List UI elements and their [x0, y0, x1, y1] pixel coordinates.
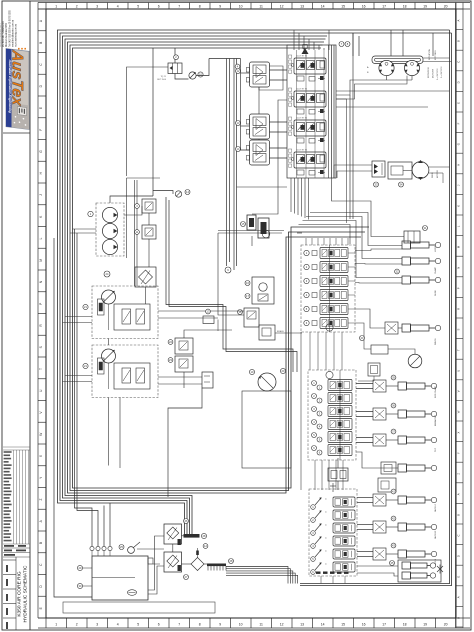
wire: centre riser elbows into bank B2 top — [297, 232, 302, 234]
svg-text:8: 8 — [199, 4, 201, 8]
solenoid valve SV1 — [142, 199, 156, 213]
svg-text:4: 4 — [117, 4, 119, 8]
approval rows — [3, 548, 30, 557]
balloon at CYL3 — [395, 269, 400, 274]
svg-text:8: 8 — [199, 623, 201, 627]
svg-text:20: 20 — [444, 4, 448, 8]
valve pair VD5 — [378, 478, 396, 492]
wire: motor band to right riser — [423, 57, 450, 59]
svg-text:17: 17 — [382, 623, 386, 627]
flow meter FM1 — [175, 74, 189, 80]
svg-text:E: E — [39, 607, 43, 609]
svg-text:12: 12 — [280, 623, 284, 627]
svg-text:TQ 21: TQ 21 — [160, 76, 166, 78]
bank B1 section S2 — [294, 91, 326, 107]
pump PA rotary group — [102, 290, 116, 304]
svg-text:2: 2 — [76, 623, 78, 627]
wire: bank B3 to bank B4 connectors — [314, 460, 316, 490]
valve block VD2 — [373, 408, 386, 420]
wire: bank B4 to CYL10 port A — [357, 524, 373, 526]
svg-text:K: K — [456, 205, 460, 207]
balloon 15 at GA1 — [241, 222, 246, 227]
wire: bank B2 top feeders — [305, 238, 307, 245]
wire: bank B4 to CYL11 port B — [357, 556, 373, 558]
wire: second pilot drop pair — [233, 59, 235, 271]
title strip address text (rotated) — [0, 9, 26, 49]
svg-text:6: 6 — [158, 623, 160, 627]
wire: bank B4 to CYL9 port B — [357, 502, 373, 504]
balloon at PB — [83, 363, 88, 368]
svg-text:10: 10 — [239, 623, 243, 627]
wire: PR1 bypass loop — [259, 66, 283, 90]
svg-text:CLUT RT IN: CLUT RT IN — [296, 118, 307, 120]
svg-text:X: X — [456, 431, 460, 433]
svg-text:AusTex: AusTex — [9, 48, 26, 108]
svg-text:18: 18 — [403, 623, 407, 627]
bank B3 centre gallery — [339, 370, 341, 460]
check valve block CV4 — [175, 356, 193, 372]
bank B4 valve module 3 — [311, 523, 355, 535]
svg-text:9: 9 — [219, 623, 221, 627]
balloon at CV3 — [168, 340, 173, 345]
valve block VE2 — [373, 521, 386, 533]
balloon at F2 — [184, 575, 189, 580]
cylinder CYL2 — [402, 257, 411, 265]
bank B3 valve module 3 — [312, 406, 353, 417]
feed motor FM3 — [412, 162, 429, 179]
wire: footer links — [337, 458, 339, 468]
svg-text:10: 10 — [239, 4, 243, 8]
svg-text:5: 5 — [137, 623, 139, 627]
balloon at CYL6 — [391, 403, 396, 408]
svg-text:7: 7 — [178, 623, 180, 627]
wire: flow meter to pilot run — [196, 59, 209, 76]
bank B4 valve module 1 — [311, 497, 355, 509]
svg-text:CLUT RT IN: CLUT RT IN — [296, 150, 307, 152]
svg-text:U: U — [456, 370, 460, 372]
svg-text:W: W — [39, 433, 43, 436]
wire: module PR2 to valve bank B1 — [270, 121, 288, 123]
balloon at FC1 — [399, 182, 404, 187]
wire: pilot run down to PR modules — [241, 59, 250, 151]
cylinder CYL8 — [398, 464, 407, 472]
svg-text:N: N — [456, 267, 460, 269]
pump PB control block — [114, 363, 150, 389]
rotation motor M2 — [404, 60, 419, 75]
balloon at breather — [119, 545, 124, 550]
pressure reducing module PR1 — [250, 62, 270, 87]
svg-text:ROD CLAMP: ROD CLAMP — [434, 385, 437, 398]
wire: GA1 riser — [251, 236, 253, 246]
return filter F1 — [164, 524, 182, 544]
wire: bank B3 to CYL5 port B — [356, 388, 373, 390]
svg-text:3: 3 — [96, 623, 98, 627]
bank B2 valve module 4 — [304, 290, 355, 301]
svg-text:B: B — [39, 42, 43, 44]
cylinder CYL6 — [398, 410, 407, 418]
valve pair VD4 — [381, 462, 396, 474]
svg-text:email:info@austex.com.au: email:info@austex.com.au — [12, 19, 15, 47]
bottom notes box — [63, 602, 215, 613]
svg-text:9: 9 — [219, 4, 221, 8]
wire: filter F2 west elbow down — [148, 566, 164, 594]
wire: bank B1 to centre gauge assembly — [252, 100, 287, 214]
balloon 1 at pump P1 — [88, 211, 93, 216]
svg-text:P: P — [39, 303, 43, 305]
wire: bank B4 to CYL9 port A — [357, 497, 373, 499]
valve bank B2 enclosure — [301, 245, 355, 332]
svg-text:C: C — [456, 534, 460, 536]
svg-text:A: A — [456, 596, 460, 598]
cylinder CYL12 — [402, 562, 411, 569]
valve block VE3 — [373, 548, 386, 560]
return filter F2 — [164, 552, 182, 572]
feed motor valve FV1 — [372, 161, 385, 177]
cylinder CYL9 — [398, 496, 407, 504]
svg-text:CLUT RT IN: CLUT RT IN — [296, 56, 307, 58]
wire: charge line pair to pump group A — [134, 180, 136, 286]
svg-text:14: 14 — [321, 623, 325, 627]
wire: header bar to filter F1 — [182, 535, 184, 537]
wire: bank B2 left supply drop — [300, 332, 302, 490]
valve bank B3 enclosure — [308, 370, 356, 460]
svg-text:16: 16 — [362, 623, 366, 627]
svg-text:HYDRAULIC SCHEMATIC: HYDRAULIC SCHEMATIC — [23, 565, 29, 622]
wire: pilot modules vertical tie — [258, 87, 260, 114]
bank B4 inlet tee — [332, 483, 334, 492]
top ruler — [38, 3, 470, 10]
bank B3 valve module 1 — [312, 380, 353, 391]
bank B1 internal gallery verticals — [296, 50, 298, 178]
svg-text:11: 11 — [259, 623, 263, 627]
wire: long vertical pair at x350/353 to bank B2 wrap — [352, 33, 354, 219]
valve block VE1 — [373, 494, 386, 506]
valve bank B1 right gallery lines — [328, 45, 330, 178]
breather B1 — [128, 547, 135, 554]
bank B2 valve module 6 — [304, 318, 355, 329]
filter F0 — [135, 267, 156, 287]
wire: bank B3 to CYL8 — [356, 452, 398, 468]
gauge isolator assembly GA1 — [247, 215, 256, 230]
cylinder CYL4 — [402, 324, 411, 332]
wire: motor band right feeder — [432, 33, 434, 56]
svg-text:JACK RF: JACK RF — [434, 530, 437, 539]
wire: bank B3 to CYL7 port B — [356, 442, 373, 444]
wire: bank B2 bottom links to bank B3 — [309, 332, 311, 370]
balloon at CV4 — [168, 358, 173, 363]
auxiliary enclosure around SV valves — [127, 177, 161, 179]
svg-text:Y: Y — [456, 452, 460, 454]
cylinder CYL11 — [398, 550, 407, 558]
svg-text:20: 20 — [444, 623, 448, 627]
brake valve BV1 — [259, 325, 275, 340]
balloon at A1 — [423, 226, 428, 231]
AusTex logo — [6, 48, 29, 130]
wire: drain line to tank left — [54, 238, 92, 597]
solenoid pair SV7 — [368, 363, 380, 376]
wire: module PR3 to valve bank B1 — [270, 147, 288, 149]
balloon 11 at SV2 — [135, 230, 140, 235]
right-edge return riser double line — [449, 30, 451, 584]
wire: bus drops to motor band — [390, 30, 392, 56]
svg-text:PO Box 447, Underwood: PO Box 447, Underwood — [2, 21, 5, 47]
svg-text:12: 12 — [280, 4, 284, 8]
svg-text:2 x OMT 250: 2 x OMT 250 — [437, 68, 439, 80]
svg-text:M: M — [39, 259, 43, 262]
svg-text:13: 13 — [300, 4, 304, 8]
bottom-right twin cylinder box — [398, 560, 441, 582]
feed motor cylinder FC1 — [388, 162, 412, 179]
rotation motor M1 — [379, 60, 394, 75]
wire: bank B4 to CYL10 port B — [357, 529, 373, 531]
bank B2 valve module 2 — [304, 262, 355, 273]
svg-text:13: 13 — [300, 623, 304, 627]
svg-text:B: B — [456, 40, 460, 42]
svg-text:E: E — [39, 107, 43, 109]
wire: VB5 drop — [218, 233, 244, 315]
balloon at strainer ST1 — [185, 190, 190, 195]
tank heater element — [128, 590, 137, 596]
cylinder CYL5 — [398, 382, 407, 390]
wire: bank B1 gallery down to feed motor — [340, 164, 372, 166]
svg-text:2 x OMT 250: 2 x OMT 250 — [441, 66, 443, 78]
wire: bank B3 to CYL7 port A — [356, 437, 373, 439]
wire: bus line extension feeding right riser — [330, 29, 450, 31]
main pressure/return bus bundle (top + left + bottom-left) — [58, 30, 331, 534]
wire: tank feed drop lines from pump case drains — [75, 229, 93, 546]
balloon at CYL10 — [391, 516, 396, 521]
balloon at twin cylinders — [390, 561, 395, 566]
valve block VB5 — [244, 308, 259, 327]
balloon 16 at RV2 — [245, 281, 250, 286]
star symbol at twin cylinders — [437, 565, 443, 574]
suction strainer ST1 — [153, 191, 173, 195]
svg-text:B: B — [456, 617, 460, 619]
balloon 19 at FM2 — [249, 369, 254, 374]
wire: filter F1 west elbow down — [148, 536, 164, 590]
svg-text:SLIDE: SLIDE — [435, 290, 437, 296]
balloon at FV1 — [374, 182, 379, 187]
svg-text:Western Australia 6084: Western Australia 6084 — [5, 23, 8, 47]
pilot valve V20 — [168, 63, 182, 74]
wire: motor drains to bank B1 — [386, 76, 388, 80]
manifold footer block MF1 — [328, 468, 348, 481]
filter header bar — [184, 534, 200, 538]
cylinder CYL1 — [402, 241, 411, 249]
wire: pump group A to B link — [108, 339, 110, 346]
wire: bus drop to pump suction header — [152, 48, 154, 196]
bank B1 section S3 — [294, 120, 326, 136]
junction elbows east of bank B2 — [310, 213, 402, 246]
hydraulic tank T1 — [92, 556, 148, 600]
svg-text:C: C — [456, 61, 460, 63]
svg-text:17: 17 — [382, 4, 386, 8]
wire: F0 down to pump group A — [145, 287, 147, 304]
valve block VC5 — [371, 345, 388, 354]
left ruler — [38, 9, 46, 618]
bottom return bus double line — [300, 583, 450, 585]
bank B3 top circle — [326, 371, 333, 378]
svg-text:BREAKOUT: BREAKOUT — [434, 414, 437, 426]
balloon pair top right of bank B1 — [339, 42, 344, 47]
svg-text:S: S — [456, 328, 460, 330]
bank B4 valve module 5 — [311, 549, 355, 561]
wire: bank B4 to twin cylinders — [357, 565, 398, 567]
svg-text:V: V — [456, 390, 460, 392]
rotation motor circuit loop band — [372, 56, 423, 64]
valve block VD3 — [373, 434, 386, 446]
svg-text:E: E — [456, 576, 460, 578]
piston pump group PB enclosure — [92, 345, 158, 398]
wire: bus drops into bank B1 — [293, 30, 295, 50]
balloon 17 at RV2 — [245, 294, 250, 299]
solenoid valve SV2 — [142, 225, 156, 239]
flush motor FM2 circle — [258, 373, 276, 391]
svg-text:1: 1 — [55, 623, 57, 627]
valve bank B1 enclosure — [287, 45, 336, 178]
wire: bus drop to pilot valve V20 — [174, 48, 176, 63]
bank B1 bottom fan-out wires — [290, 178, 292, 212]
balloon at CYL5 — [391, 375, 396, 380]
balloon tank left upper — [77, 565, 82, 570]
balloon 2 above V20 — [174, 55, 179, 60]
side element at F2 — [178, 565, 181, 571]
svg-text:18: 18 — [403, 4, 407, 8]
wire: VB6 drain to filter area — [168, 388, 202, 497]
bank B3 valve module 2 — [312, 393, 353, 404]
wire: bank B3 to CYL6 port A — [356, 411, 373, 413]
pump PB rotary group — [102, 349, 116, 363]
svg-text:6: 6 — [158, 4, 160, 8]
wire: bank B2 to CYL4 — [355, 309, 385, 328]
cylinder CYL7 — [398, 436, 407, 444]
balloon at filter header bar — [201, 533, 206, 538]
title strip border — [29, 1, 31, 630]
balloon 40 mid right — [360, 336, 365, 341]
balloon 10 at flow meter — [198, 72, 203, 77]
tank port balloons — [90, 546, 94, 550]
pressure reducing module PR3 — [250, 140, 270, 165]
wire: terminal strip fan-out to bottom bus — [226, 567, 288, 584]
wire: P1 suction from tank line — [110, 196, 153, 203]
balloon 24 left of F0 — [104, 271, 110, 277]
balloon at VX1 — [206, 309, 211, 314]
bank B1 inlet arrow symbol — [302, 48, 309, 54]
svg-text:T: T — [39, 368, 43, 370]
balloon at TS1 — [229, 559, 234, 564]
bottom ruler — [38, 618, 470, 628]
wire: P1 to SV1/SV2 — [124, 206, 142, 215]
svg-text:7: 7 — [178, 4, 180, 8]
wire: bank B3 to CYL5 port A — [356, 383, 373, 385]
check valve block CV3 — [175, 338, 193, 354]
bank B1 section S4 — [294, 152, 326, 168]
balloon above CV6 — [203, 544, 208, 549]
valve block VC4 — [385, 322, 398, 334]
wire: riser top west link pair — [218, 230, 284, 232]
svg-text:16: 16 — [362, 4, 366, 8]
svg-text:2: 2 — [76, 4, 78, 8]
wire: centre drop pair from pilot run — [209, 58, 241, 60]
wire: bank B4 to CYL11 port A — [357, 551, 373, 553]
wire: tank left stubs — [83, 567, 92, 569]
enclosure box around flush motor — [242, 391, 291, 468]
svg-text:G: G — [456, 143, 460, 145]
svg-text:Tel 0407 555 555 Fax 08 587: Tel 0407 555 555 Fax 08 5875 5555 — [9, 9, 11, 47]
svg-text:L: L — [39, 237, 43, 239]
valve bank B4 enclosure — [309, 489, 357, 576]
balloon tank left lower — [77, 583, 82, 588]
wire: strainer pair to bank B3 supply — [166, 197, 293, 372]
feed cylinder assembly top A1 — [404, 231, 420, 243]
wire: pump group B east runs — [158, 376, 202, 378]
balloon at CYL11 — [391, 543, 396, 548]
wire: pump group B down to return bundle — [108, 398, 110, 466]
svg-text:SET 1500: SET 1500 — [157, 79, 167, 81]
revision table — [3, 447, 30, 544]
svg-text:D: D — [456, 555, 460, 557]
bank B4 valve module 4 — [311, 536, 355, 548]
wire: VX1 drop — [217, 320, 219, 332]
svg-text:11: 11 — [259, 4, 263, 8]
triple gear pump P1 enclosure — [96, 203, 124, 256]
cylinder CYL13 — [402, 572, 411, 579]
svg-text:MOTORS: MOTORS — [435, 50, 437, 60]
cylinder CYL10 — [398, 523, 407, 531]
title block cells — [3, 557, 16, 630]
balloon 3 at SV1 — [135, 204, 140, 209]
bank B2 centre gallery — [329, 245, 331, 332]
accumulator gauge G1 — [408, 354, 422, 368]
pump P1 element 2 — [102, 223, 117, 238]
svg-text:15: 15 — [341, 623, 345, 627]
balloon at F1 — [184, 519, 189, 524]
wire: CV3/CV4 riser — [184, 330, 232, 338]
svg-text:BRAKE: BRAKE — [277, 330, 284, 333]
svg-text:B: B — [456, 514, 460, 516]
pump P1 element 3 — [102, 239, 117, 254]
bank B3 valve module 5 — [312, 432, 353, 443]
svg-text:Western Australia 6084: Western Australia 6084 — [0, 23, 2, 47]
pump PA control block — [114, 304, 150, 330]
valve block VB6 — [202, 372, 213, 388]
wire: motor loop feeders from bus — [352, 33, 354, 56]
svg-text:MOTOR: MOTOR — [437, 170, 439, 178]
wire: breather link line — [137, 548, 164, 550]
svg-text:W: W — [456, 410, 460, 413]
svg-text:MOTORS: MOTORS — [433, 68, 435, 78]
svg-text:19: 19 — [423, 623, 427, 627]
svg-text:P: P — [456, 287, 460, 289]
bank B3 valve module 4 — [312, 419, 353, 430]
cylinder CYL3 — [402, 276, 411, 284]
wire: PA links to bus — [65, 316, 92, 318]
svg-text:H: H — [456, 164, 460, 166]
pressure reducing module PR2 — [250, 114, 270, 139]
wire: pump group A east runs — [158, 310, 244, 312]
svg-text:D: D — [456, 81, 460, 83]
wire: PB links to bus — [65, 375, 92, 377]
svg-text:T: T — [456, 349, 460, 351]
bank B2 valve module 3 — [304, 276, 355, 287]
svg-text:3: 3 — [96, 4, 98, 8]
svg-text:1: 1 — [55, 4, 57, 8]
check valve CV6 — [191, 558, 204, 571]
wire: pilot link to bank B1 base — [237, 186, 288, 188]
wire: links around G1 — [355, 323, 371, 349]
wire: bank B1 right outputs east — [336, 90, 450, 92]
pump PB stroking cylinder — [98, 358, 105, 374]
